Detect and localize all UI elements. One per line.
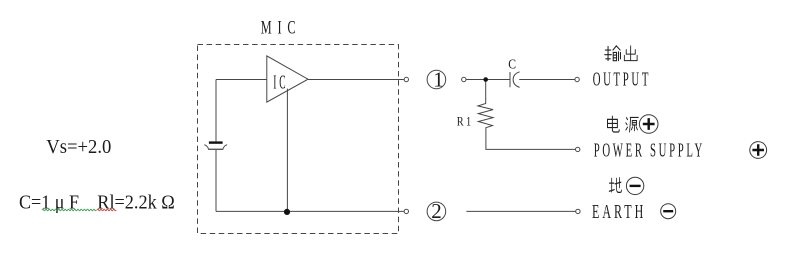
svg-text:OUTPUT: OUTPUT [593,69,651,91]
svg-text:2: 2 [431,199,442,223]
svg-text:Vs=+2.0: Vs=+2.0 [46,136,111,158]
svg-text:POWER SUPPLY: POWER SUPPLY [594,140,705,162]
svg-text:Rl=2.2k Ω: Rl=2.2k Ω [97,191,175,213]
svg-text:MIC: MIC [261,17,302,38]
svg-text:IC: IC [273,72,288,94]
svg-text:R1: R1 [457,113,474,128]
svg-text:EARTH: EARTH [592,201,646,223]
svg-text:C: C [508,58,516,73]
svg-text:1: 1 [433,67,444,91]
svg-text:C=1 μ F: C=1 μ F [19,191,79,213]
